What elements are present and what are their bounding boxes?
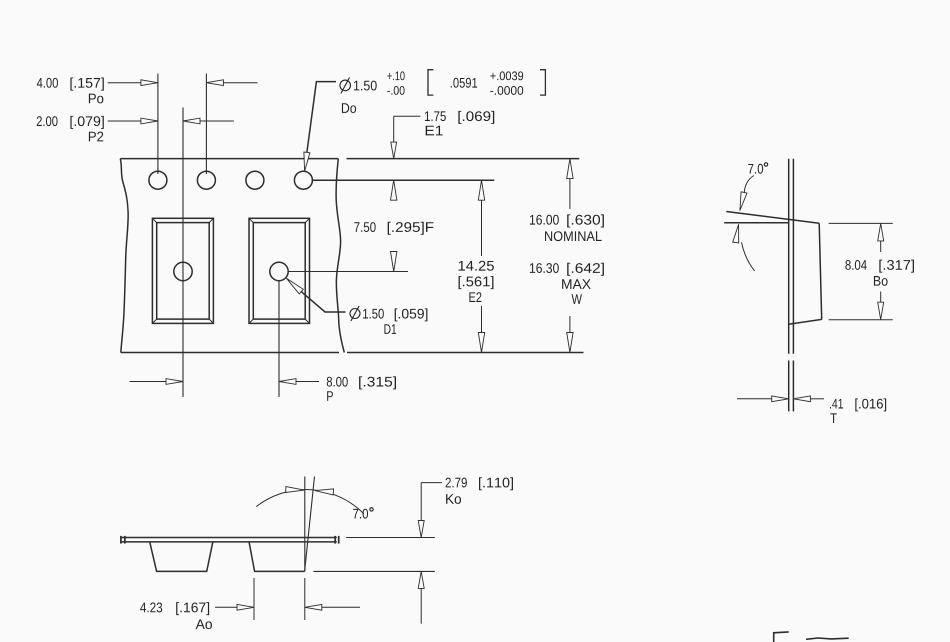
label Ao value — [140, 602, 162, 612]
dimension T leader left — [737, 398, 772, 400]
carrier tape top edge (right segment) — [347, 158, 580, 160]
section pocket 2 left wall and bottom — [249, 542, 305, 571]
section tape strip top line — [121, 537, 337, 539]
label D1 value — [363, 309, 384, 319]
dimension Ao leader right — [322, 606, 360, 608]
sprocket hole center line extension — [313, 179, 495, 181]
label Bo value — [845, 260, 866, 270]
pocket 1 center hole — [174, 262, 192, 280]
dimension Po leader left — [108, 82, 142, 84]
dimension T arrow right — [793, 396, 810, 402]
dimension P2 leader left — [108, 120, 142, 122]
carrier tape bottom edge (right segment) — [347, 352, 584, 354]
dimension E2 arrow bottom — [478, 333, 484, 353]
dimension Ko leader — [421, 482, 442, 484]
label E1 value — [425, 111, 446, 121]
dimension W line — [569, 179, 571, 209]
dimension T leader right — [810, 398, 824, 400]
side view tape strip — [788, 159, 790, 354]
label D1 name — [384, 324, 396, 334]
label Do name — [342, 103, 356, 113]
leader D1 arrowhead — [286, 278, 303, 294]
dimension Ko extension bottom — [313, 570, 435, 572]
dimension E1 leader — [394, 115, 421, 117]
dimension P arrow right — [279, 379, 296, 385]
section tape strip bottom line — [121, 541, 337, 543]
carrier tape torn left edge — [120, 159, 128, 353]
label D1 diameter symbol — [350, 306, 360, 321]
dimension P leader right — [296, 381, 320, 383]
side view tape strip lower segment — [788, 361, 790, 412]
dimension Ko tail bottom — [420, 588, 422, 623]
dimension E2 arrow top — [478, 180, 484, 200]
dimension E2 line — [481, 200, 483, 256]
label Po name — [89, 94, 103, 104]
tolerance bracket close — [540, 70, 545, 95]
dimension E1 arrow top — [391, 142, 397, 159]
dimension Po arrow right — [206, 80, 223, 86]
label P2 name — [89, 132, 103, 142]
label W max value — [530, 263, 559, 273]
carrier tape break line — [336, 159, 344, 353]
section vertical reference line — [304, 477, 306, 572]
dimension Ao leader left — [215, 606, 237, 608]
label T name — [830, 413, 836, 423]
label W nominal word — [545, 231, 602, 241]
dimension P2 leader right — [200, 120, 234, 122]
dimension Ao arrow left — [237, 604, 254, 610]
dimension W arrow top — [567, 159, 573, 179]
section slanted wall line (7 deg) — [305, 477, 315, 572]
dimension Ko line — [420, 483, 422, 521]
pocket 2 outer rim — [249, 218, 310, 323]
leader Do line — [307, 82, 336, 153]
dimension P arrow left — [166, 379, 183, 385]
label Do value — [354, 81, 377, 91]
label T value — [830, 399, 843, 409]
label section angle — [353, 509, 368, 519]
section angle arrow left — [286, 487, 305, 493]
label E2 value — [459, 261, 494, 271]
dimension Bo extension top — [829, 222, 893, 224]
label Do tolerance — [387, 71, 404, 80]
extension line sprocket hole 1 — [157, 74, 159, 175]
dimension P2 arrow right — [183, 118, 200, 124]
dimension Ko extension top — [346, 537, 435, 539]
pocket 1 inner rim — [157, 223, 210, 320]
tolerance inch plus — [490, 71, 523, 80]
label P2 value — [37, 116, 58, 126]
section strip right end ticks — [335, 536, 339, 544]
dimension T arrow left — [772, 396, 789, 402]
partial underline glyph at page bottom — [806, 638, 849, 639]
leader Do arrowhead — [304, 152, 310, 171]
tolerance bracket open — [428, 70, 433, 95]
dimension Bo line bottom — [880, 292, 882, 303]
tolerance inch value — [451, 78, 477, 88]
sprocket hole 1 — [149, 171, 167, 189]
sprocket hole 4 — [294, 171, 312, 189]
label Po value — [37, 78, 58, 88]
label side view angle — [748, 164, 763, 174]
tolerance inch minus — [490, 86, 523, 95]
sprocket hole 2 — [197, 171, 215, 189]
section strip left end ticks — [121, 536, 125, 544]
pocket 2 center line — [278, 281, 280, 397]
dimension Po leader right — [223, 82, 258, 84]
pocket 2 corner bevels — [249, 218, 310, 323]
side view pocket right wall — [819, 223, 822, 319]
carrier tape top edge (left segment) — [120, 158, 338, 160]
dimension Bo arrow top — [878, 223, 884, 241]
label Do diameter symbol — [340, 78, 351, 94]
pocket 1 outer rim — [152, 218, 213, 323]
dimension P2 arrow left — [141, 118, 158, 124]
label P value — [327, 377, 348, 387]
label W max word — [562, 279, 591, 289]
label Ao name — [196, 619, 212, 629]
label W name — [572, 294, 582, 304]
pocket 1 center line — [182, 108, 184, 398]
dimension W arrow bottom — [567, 333, 573, 353]
dimension Bo arrow bottom — [878, 302, 884, 320]
dimension Bo extension bottom — [829, 319, 893, 321]
label W nominal value — [530, 215, 559, 225]
side view horizontal reference line — [724, 222, 789, 224]
leader D1 line — [301, 292, 345, 312]
dimension Bo line top — [880, 241, 882, 252]
pocket 1 corner bevels — [152, 218, 213, 323]
dimension Ko arrow top — [418, 521, 424, 538]
sprocket hole 3 — [246, 171, 264, 189]
dimension Ko arrow bottom — [418, 571, 424, 588]
label F value — [354, 222, 375, 232]
partial bracket glyph at page bottom — [774, 632, 789, 642]
label Ko name — [446, 494, 461, 504]
side view angle arc upper — [744, 176, 754, 194]
dimension Po arrow left — [141, 80, 158, 86]
pocket 2 center hole — [270, 262, 288, 280]
side view angle arrow lower — [733, 224, 739, 243]
label E2 name — [469, 292, 481, 302]
side view pocket bottom — [789, 319, 822, 324]
dimension Ao extension left — [253, 578, 255, 620]
pocket center line extension — [288, 271, 408, 273]
section angle arrow right — [315, 489, 334, 495]
carrier tape bottom edge (left segment) — [121, 352, 339, 354]
label E1 name — [426, 126, 443, 136]
section pocket 1 — [150, 542, 213, 571]
dimension P leader left — [130, 381, 167, 383]
label P name — [327, 391, 333, 401]
section angle arc — [256, 490, 364, 514]
side view pocket top flange line (7 deg) — [726, 212, 819, 224]
dimension Ao extension right — [304, 578, 306, 620]
dimension F arrow bottom — [391, 252, 397, 272]
pocket 2 inner rim — [253, 223, 305, 320]
dimension Ao arrow right — [305, 604, 322, 610]
dimension E1 arrow bottom — [391, 180, 397, 200]
label Ko value — [446, 478, 467, 488]
side view angle arc lower — [742, 242, 755, 271]
side view angle arrow upper — [740, 192, 747, 211]
label Bo name — [874, 276, 888, 286]
extension line sprocket hole 2 — [205, 74, 207, 175]
